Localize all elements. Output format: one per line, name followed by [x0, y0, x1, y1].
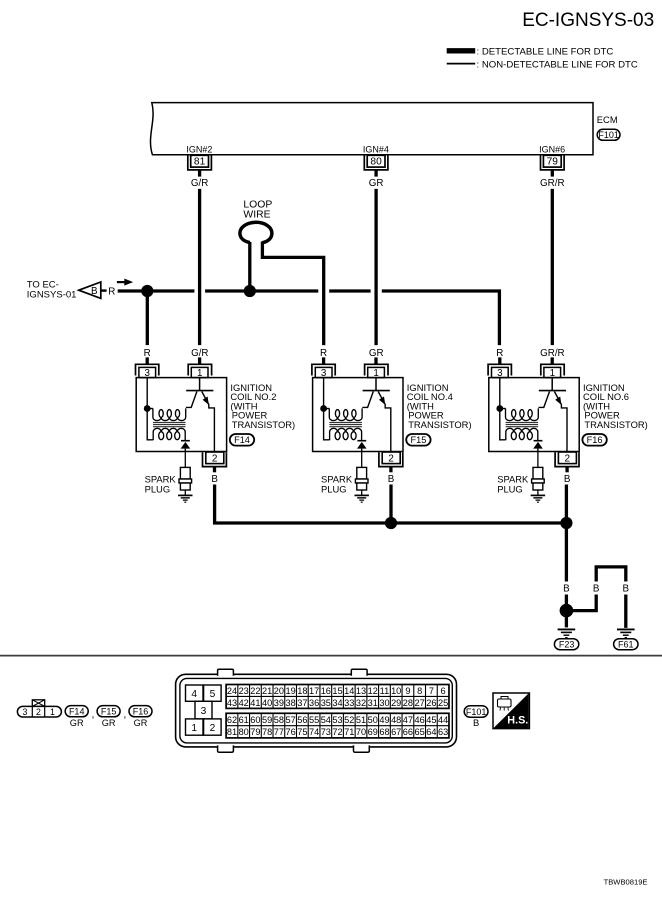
ignition coil NO.4 with power transistor (F15)	[312, 357, 403, 502]
svg-text:41: 41	[250, 698, 260, 708]
svg-text:PLUG: PLUG	[497, 483, 523, 494]
svg-text:75: 75	[297, 727, 307, 737]
svg-text:50: 50	[368, 715, 378, 725]
svg-text:F101: F101	[466, 707, 487, 717]
svg-text:43: 43	[227, 698, 237, 708]
svg-text:8: 8	[417, 686, 422, 696]
svg-text:TRANSISTOR): TRANSISTOR)	[408, 419, 471, 430]
connector oval F14	[65, 706, 88, 717]
svg-text:TBWB0819E: TBWB0819E	[604, 878, 648, 887]
svg-text:4: 4	[191, 689, 197, 700]
svg-text:60: 60	[250, 715, 260, 725]
svg-text:F15: F15	[410, 435, 426, 445]
svg-text:9: 9	[405, 686, 410, 696]
svg-text:77: 77	[274, 727, 284, 737]
svg-text:56: 56	[297, 715, 307, 725]
svg-text:46: 46	[415, 715, 425, 725]
svg-text:7: 7	[429, 686, 434, 696]
wire B from coil NO.4	[389, 485, 392, 524]
svg-text:EC-IGNSYS-03: EC-IGNSYS-03	[522, 10, 654, 31]
svg-text:GR: GR	[102, 718, 116, 728]
svg-text:5: 5	[210, 689, 216, 700]
wire R bus segment 4	[255, 289, 318, 292]
svg-text:18: 18	[297, 686, 307, 696]
svg-text:70: 70	[356, 727, 366, 737]
ECM pin 80 IGN#4	[363, 144, 389, 189]
wire G/R from ECM pin 81 to coil	[198, 189, 201, 345]
junction node at loop wire	[244, 285, 256, 297]
legend detectable line swatch	[447, 48, 476, 53]
svg-text:48: 48	[391, 715, 401, 725]
svg-text:53: 53	[332, 715, 342, 725]
svg-text:20: 20	[274, 686, 284, 696]
svg-text:63: 63	[438, 727, 448, 737]
svg-text:52: 52	[344, 715, 354, 725]
svg-text:78: 78	[262, 727, 272, 737]
off-page triangle connector B	[79, 282, 101, 298]
svg-text:54: 54	[321, 715, 331, 725]
loop wire loop	[240, 222, 272, 242]
svg-text:F101: F101	[598, 130, 619, 140]
svg-text:67: 67	[391, 727, 401, 737]
coil connector oval F16	[582, 434, 606, 446]
svg-text:72: 72	[332, 727, 342, 737]
svg-text:,: ,	[91, 709, 94, 721]
svg-text:B: B	[563, 584, 570, 595]
svg-text:GR: GR	[70, 718, 84, 728]
svg-text:26: 26	[426, 698, 436, 708]
junction node at coil1 R	[141, 285, 153, 297]
svg-text:GR: GR	[369, 178, 384, 189]
housing tabs	[218, 669, 234, 676]
svg-text:11: 11	[380, 686, 390, 696]
svg-text:49: 49	[379, 715, 389, 725]
coil connector oval F14	[230, 434, 254, 446]
ground F61	[617, 628, 635, 630]
svg-text:71: 71	[344, 727, 354, 737]
svg-text:F61: F61	[618, 640, 634, 650]
svg-text:GR/R: GR/R	[540, 178, 565, 189]
stub from triangle	[101, 289, 107, 291]
pin cells 1-5	[186, 685, 222, 735]
svg-text:12: 12	[368, 686, 378, 696]
svg-text:66: 66	[403, 727, 413, 737]
svg-text:80: 80	[370, 157, 382, 168]
svg-text:1: 1	[191, 723, 197, 734]
svg-text:51: 51	[356, 715, 366, 725]
svg-text:PLUG: PLUG	[321, 483, 347, 494]
svg-text:2: 2	[210, 723, 216, 734]
junction node at F23	[560, 604, 574, 618]
svg-text:33: 33	[344, 698, 354, 708]
svg-text:,: ,	[123, 709, 126, 721]
svg-text:TRANSISTOR): TRANSISTOR)	[232, 419, 295, 430]
svg-text:27: 27	[415, 698, 425, 708]
svg-text:59: 59	[262, 715, 272, 725]
svg-text:37: 37	[297, 698, 307, 708]
svg-text:32: 32	[356, 698, 366, 708]
svg-text:GR: GR	[369, 348, 384, 359]
direction arrow	[117, 281, 127, 283]
svg-text:38: 38	[285, 698, 295, 708]
connector oval F16	[129, 706, 152, 717]
svg-text:24: 24	[227, 686, 237, 696]
small connector 3-2-1	[17, 700, 61, 717]
wire R bus segment 6 with corner to coil3	[382, 291, 500, 345]
svg-text:79: 79	[250, 727, 260, 737]
svg-text:: NON-DETECTABLE LINE FOR DTC: : NON-DETECTABLE LINE FOR DTC	[477, 60, 638, 71]
svg-text:IGNSYS-01: IGNSYS-01	[27, 289, 77, 300]
svg-text:B: B	[388, 474, 395, 485]
svg-text:PLUG: PLUG	[145, 483, 171, 494]
ECM box	[150, 103, 593, 155]
svg-text:81: 81	[194, 157, 206, 168]
svg-text:80: 80	[239, 727, 249, 737]
svg-text:31: 31	[368, 698, 378, 708]
H.S. harness connector icon	[493, 693, 529, 729]
junction node B coil NO.6	[560, 517, 572, 529]
coil connector oval F15	[406, 434, 430, 446]
svg-text:G/R: G/R	[191, 178, 208, 189]
svg-text:73: 73	[321, 727, 331, 737]
svg-text:B: B	[211, 474, 218, 485]
svg-text:IGN#4: IGN#4	[363, 144, 389, 154]
wire R drop to coil1 pin3	[146, 291, 149, 345]
wire R bus segment 2	[153, 289, 195, 292]
svg-text:23: 23	[239, 686, 249, 696]
svg-text:GR: GR	[134, 718, 148, 728]
svg-text:16: 16	[321, 686, 331, 696]
svg-text:55: 55	[309, 715, 319, 725]
ECM connector housing inner	[180, 678, 452, 743]
svg-text:1: 1	[50, 707, 55, 717]
svg-text:R: R	[144, 348, 151, 359]
wire R bus segment 1	[118, 289, 143, 292]
ignition coil NO.2 with power transistor (F14)	[136, 357, 227, 502]
svg-text:81: 81	[227, 727, 237, 737]
connector oval F101	[464, 706, 488, 718]
svg-text:F16: F16	[587, 435, 603, 445]
svg-text:B: B	[473, 717, 479, 728]
svg-text:34: 34	[332, 698, 342, 708]
svg-text:G/R: G/R	[191, 348, 208, 359]
pin grid band lower	[226, 713, 449, 738]
pin grid band upper	[226, 685, 449, 709]
svg-text:B: B	[564, 474, 571, 485]
svg-text:3: 3	[22, 707, 27, 717]
wire R bus segment 3	[205, 289, 245, 292]
ground oval F23	[554, 639, 578, 650]
svg-text:17: 17	[309, 686, 319, 696]
svg-text:36: 36	[309, 698, 319, 708]
wire R bus segment 5	[329, 289, 370, 292]
wire B from coil NO.6	[565, 485, 568, 524]
svg-text:GR/R: GR/R	[540, 348, 565, 359]
wire GR from ECM pin 80 to coil	[374, 189, 377, 345]
svg-text:: DETECTABLE LINE FOR DTC: : DETECTABLE LINE FOR DTC	[477, 46, 614, 57]
svg-text:F14: F14	[69, 707, 85, 717]
legend non-detectable line swatch	[447, 63, 476, 65]
ground oval F61	[614, 639, 638, 650]
wire B bus bottom	[215, 485, 567, 524]
loop wire right leg to coil2 pin3	[262, 242, 323, 346]
svg-text:IGN#2: IGN#2	[186, 144, 212, 154]
wire B bridge to F61	[570, 595, 596, 611]
svg-text:44: 44	[438, 715, 448, 725]
svg-text:14: 14	[344, 686, 354, 696]
svg-text:45: 45	[426, 715, 436, 725]
svg-text:22: 22	[250, 686, 260, 696]
svg-text:R: R	[496, 348, 503, 359]
svg-text:76: 76	[285, 727, 295, 737]
svg-text:WIRE: WIRE	[243, 209, 270, 220]
svg-text:2: 2	[36, 707, 41, 717]
svg-text:R: R	[320, 348, 327, 359]
svg-text:30: 30	[379, 698, 389, 708]
svg-text:58: 58	[274, 715, 284, 725]
svg-text:42: 42	[239, 698, 249, 708]
svg-text:68: 68	[379, 727, 389, 737]
ECM pin 81 IGN#2	[186, 144, 212, 189]
junction node B coil NO.4	[385, 517, 397, 529]
svg-text:B: B	[593, 584, 600, 595]
svg-text:69: 69	[368, 727, 378, 737]
ECM connector F101 oval	[597, 129, 620, 140]
svg-text:ECM: ECM	[597, 114, 618, 125]
wire B down to ground F23	[565, 523, 568, 582]
svg-text:TRANSISTOR): TRANSISTOR)	[584, 419, 647, 430]
svg-text:57: 57	[285, 715, 295, 725]
svg-text:F14: F14	[234, 435, 250, 445]
svg-text:6: 6	[441, 686, 446, 696]
svg-text:F16: F16	[133, 707, 149, 717]
svg-text:13: 13	[356, 686, 366, 696]
svg-text:25: 25	[438, 698, 448, 708]
svg-text:47: 47	[403, 715, 413, 725]
svg-text:21: 21	[262, 686, 272, 696]
connector oval F15	[97, 706, 120, 717]
ECM connector housing outer	[176, 674, 457, 747]
svg-text:F23: F23	[559, 640, 575, 650]
svg-text:H.S.: H.S.	[507, 715, 528, 727]
svg-text:61: 61	[239, 715, 249, 725]
svg-text:19: 19	[285, 686, 295, 696]
ground F23	[558, 628, 576, 630]
svg-text:39: 39	[274, 698, 284, 708]
ECM pin 79 IGN#6	[539, 144, 565, 189]
svg-text:74: 74	[309, 727, 319, 737]
svg-text:29: 29	[391, 698, 401, 708]
svg-text:28: 28	[403, 698, 413, 708]
svg-text:35: 35	[321, 698, 331, 708]
svg-text:3: 3	[201, 706, 207, 717]
loop wire left leg	[248, 242, 251, 291]
svg-text:B: B	[91, 286, 98, 297]
svg-text:B: B	[623, 584, 630, 595]
svg-text:F15: F15	[101, 707, 117, 717]
ignition coil NO.6 with power transistor (F16)	[488, 357, 579, 502]
svg-text:40: 40	[262, 698, 272, 708]
svg-text:IGN#6: IGN#6	[539, 144, 565, 154]
separator line	[0, 655, 662, 657]
svg-text:65: 65	[415, 727, 425, 737]
wire GR/R from ECM pin 79 to coil	[551, 189, 554, 345]
svg-text:R: R	[108, 287, 115, 298]
svg-text:64: 64	[426, 727, 436, 737]
svg-text:10: 10	[391, 686, 401, 696]
svg-text:15: 15	[332, 686, 342, 696]
svg-text:62: 62	[227, 715, 237, 725]
svg-text:79: 79	[547, 157, 559, 168]
